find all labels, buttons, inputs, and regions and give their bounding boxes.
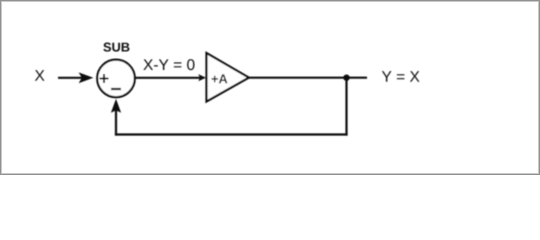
wire X input to summing junction (with arrowhead) bbox=[58, 77, 90, 79]
label SUB bbox=[103, 43, 129, 52]
amplifier A (triangle) bbox=[207, 53, 249, 102]
wire feedback vertical (left side, up into summing junction, with arrowhead) bbox=[115, 105, 117, 136]
label Y = X (output net) bbox=[382, 71, 420, 82]
wire feedback horizontal (bottom) bbox=[115, 133, 348, 135]
label X-Y = 0 (error signal net) bbox=[143, 59, 194, 70]
label X (input) bbox=[35, 70, 45, 81]
wire feedback vertical (right side, down from output node) bbox=[345, 78, 347, 136]
wire summing junction to amplifier (with arrowhead) bbox=[135, 77, 200, 79]
minus sign (− feedback input of summing junction) bbox=[111, 88, 121, 90]
summing junction SUB (circle) bbox=[97, 60, 135, 98]
wire amplifier output bbox=[249, 77, 367, 79]
label +A bbox=[212, 74, 228, 83]
node output junction (dot) bbox=[343, 75, 349, 81]
plus sign (+ input of summing junction) bbox=[100, 74, 109, 83]
